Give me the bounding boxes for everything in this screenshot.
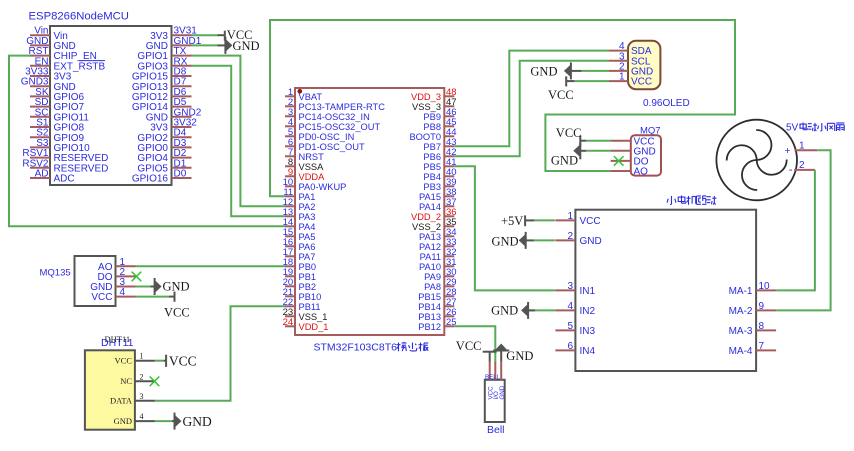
U1 right pin 3V3 / net label 3V31 [150,26,197,42]
U2 pin 13 PA3 [283,207,316,222]
svg-text:PB8: PB8 [423,122,441,132]
svg-text:PC13-TAMPER-RTC: PC13-TAMPER-RTC [299,102,386,112]
U2 pin 10 PA0-WKUP [283,177,347,192]
wire DHT11 DATA to U2 PB11 (pin22) [155,306,285,401]
svg-text:PA5: PA5 [299,232,316,242]
U5 pin 1 VCC [555,211,600,227]
svg-text:PB15: PB15 [418,292,441,302]
svg-text:GND: GND [530,64,557,78]
U1 left pin GPIO7 / net label SD [30,97,85,113]
svg-text:VCC: VCC [580,216,601,227]
U1 right pin GPIO16 / net label D0 [132,169,192,185]
svg-text:PB14: PB14 [418,302,441,312]
U2 pin 5 PD0-OSC_IN [285,127,354,142]
U2 pin 14 PA4 [283,217,316,232]
svg-text:PB4: PB4 [423,172,441,182]
svg-text:PA2: PA2 [299,202,316,212]
5V fan M1 circle body [716,120,797,201]
svg-text:GND: GND [183,414,212,429]
U1 right pin GPIO0 / net label D3 [137,138,191,154]
svg-text:PB7: PB7 [423,142,441,152]
GND power port at U5 GND [492,232,534,249]
svg-text:BOOT0: BOOT0 [409,132,441,142]
svg-text:4: 4 [567,301,573,312]
U2 pin 8 VSSA [285,157,324,172]
svg-text:AD: AD [35,169,49,180]
svg-text:VCC: VCC [556,126,582,140]
svg-text:VSS_2: VSS_2 [412,222,441,232]
U1 right pin GPIO1 / net label TX [137,46,191,62]
svg-text:10: 10 [759,281,771,292]
wire U2 PA1 (pin11) loop to MQ7 AO [270,20,735,196]
U1 right pin GPIO2 / net label D4 [137,128,191,144]
STM32F103C8T6 core board U2 body [295,88,444,335]
GND power port at U5 IN2 [491,302,535,319]
U2 pin 37 PA14 [419,197,457,212]
wire MQ135 GND pin to GND port [136,286,151,288]
svg-text:MQ135: MQ135 [40,268,71,279]
U2 pin 18 PB0 [283,257,316,272]
U5 pin 4 IN2 [555,301,595,317]
wire U2 PB5 (pin41) to U5 IN1 [454,166,555,290]
U1 left pin GPIO8 / net label S1 [30,118,85,134]
svg-text:2: 2 [567,231,573,242]
svg-text:AO: AO [634,167,649,178]
wire ESP GND1 to GND power port [192,44,218,46]
U2 pin 44 BOOT0 [409,127,456,142]
U2 pin 43 PB7 [423,137,456,152]
U2 pin 27 PB14 [418,297,456,312]
U2 pin 7 NRST [285,147,324,162]
svg-text:PB10: PB10 [299,292,322,302]
svg-text:PA1: PA1 [299,192,316,202]
U1 left pin GPIO10 / net label S3 [30,138,90,154]
svg-text:GND: GND [499,385,506,399]
U2 pin 11 PA1 [283,187,315,202]
svg-text:VDD_1: VDD_1 [299,322,329,332]
svg-text:VDD_3: VDD_3 [411,92,441,102]
U3 pin 1 VCC [609,72,652,88]
U3 pin 2 GND [609,61,653,77]
U3 pin 4 SDA [609,41,652,57]
U2 pin 15 PA5 [283,227,316,242]
fan pin 1 + [784,141,817,157]
svg-text:24: 24 [283,317,294,328]
U2 pin 35 VSS_2 [412,217,457,232]
svg-text:3: 3 [567,281,573,292]
U2 pin 21 PB10 [283,287,322,302]
U1 right pin 3V3 / net label 3V32 [150,118,197,134]
svg-text:8: 8 [759,321,765,332]
wire OLED GND pin to GND port [582,70,609,72]
GND power port at Bell GND [493,344,533,364]
svg-text:PB1: PB1 [299,272,317,282]
Bell pin VCC [487,362,494,400]
U1 left pin GPIO11 / net label SC [30,107,89,123]
wire MQ135 VCC pin to VCC port [136,296,170,298]
U5 pin 3 IN1 [555,281,595,297]
wire ESP 3V31 to VCC power port [192,34,218,36]
U6 pin 2 DO [98,267,136,283]
U5 pin 6 IN4 [555,341,595,357]
svg-text:PA11: PA11 [420,252,441,262]
svg-text:PA3: PA3 [299,212,316,222]
svg-text:IN3: IN3 [580,326,596,337]
U5 pin 9 MA-2 [729,301,777,317]
U2 pin 33 PA12 [419,237,457,252]
svg-text:GND: GND [506,349,533,363]
MQ7 gas sensor U4 body [631,135,661,175]
GND power port at MQ7 GND [551,142,586,167]
U2 pin 29 PA8 [424,277,456,292]
svg-text:PB11: PB11 [299,302,321,312]
U2 pin 42 PB6 [423,147,456,162]
svg-text:MA-4: MA-4 [729,346,753,357]
0.96OLED display U3 body [628,41,660,89]
wire U2 PB12 (pin25) to Bell I/O [454,326,495,362]
U1 left pin GND / net label GND [26,36,75,52]
U4 pin GND [611,146,656,157]
motor driver U5 body 小电机驱动 [575,210,756,371]
svg-text:ADC: ADC [54,174,75,185]
svg-text:2: 2 [799,160,805,171]
svg-text:PA0-WKUP: PA0-WKUP [299,182,347,192]
U2 pin 24 VDD_1 [283,317,329,332]
U2 pin 34 PA13 [419,227,457,242]
U4 pin DO [611,157,649,168]
U2 pin 9 VDDA [285,167,325,182]
U5 pin 5 IN3 [555,321,595,337]
U1 right pin GPIO14 / net label D5 [132,97,192,113]
U2 pin 47 VSS_3 [412,97,457,112]
U5 label 小电机驱动 [667,196,676,205]
MQ135 gas sensor U6 body [75,256,116,306]
fan blades swirl [727,130,787,190]
svg-text:PB9: PB9 [423,112,441,122]
U1 right pin GND / net label GND1 [146,36,202,52]
svg-text:PA12: PA12 [419,242,441,252]
U5 pin 2 GND [555,231,601,247]
svg-text:DHT11: DHT11 [105,334,131,344]
svg-text:VCC: VCC [91,292,112,303]
U2 pin 45 PB8 [423,117,456,132]
U2 pin 30 PA9 [424,267,456,282]
U2 pin 36 VDD_2 [411,207,457,222]
U1 left pin Vin / net label Vin [30,26,68,42]
svg-text:6: 6 [567,341,573,352]
svg-text:PD0-OSC_IN: PD0-OSC_IN [299,132,355,142]
svg-text:PA15: PA15 [419,192,441,202]
wire MQ7 GND pin to GND port [586,150,611,152]
svg-text:1: 1 [567,211,573,222]
wire ESP TX to U2 PA2 (pin12) [192,56,286,207]
svg-text:-: - [789,164,793,176]
VCC power port at ESP 3V31 [218,28,253,42]
svg-text:5V: 5V [786,123,799,134]
U1 right pin GPIO13 / net label D7 [132,77,192,93]
VCC power port at Bell VCC [456,339,497,362]
U2 pin 40 PB4 [423,167,456,182]
U2 pin 19 PB1 [283,267,316,282]
no-connect X on MQ135 DO [132,272,142,282]
U2 pin 16 PA6 [283,237,316,252]
svg-text:+: + [784,145,790,157]
wire U2 PB6 (pin42) to OLED SCL [454,61,609,157]
no-connect X on MQ7 DO [614,156,624,166]
svg-text:GND: GND [491,304,518,318]
U6 pin 3 GND [90,277,135,293]
svg-text:ESP8266NodeMCU: ESP8266NodeMCU [29,11,129,23]
svg-text:GND: GND [551,154,578,168]
U1 left pin RESERVED / net label RSV2 [22,158,108,174]
svg-text:VBAT: VBAT [299,92,323,102]
svg-text:PA10: PA10 [419,262,441,272]
U1 left pin 3V3 / net label 3V33 [25,67,72,83]
U2 pin 4 PC15-OSC32_OUT [285,117,380,132]
svg-text:GND: GND [114,416,132,426]
svg-text:VCC: VCC [169,354,197,369]
svg-text:VCC: VCC [631,77,652,88]
svg-text:2: 2 [140,372,144,381]
svg-text:PB13: PB13 [418,312,441,322]
svg-text:STM32F103C8T6: STM32F103C8T6 [314,342,398,354]
svg-text:PB0: PB0 [299,262,317,272]
U4 pin VCC [611,136,655,147]
svg-text:3: 3 [140,392,144,401]
U1 right pin GPIO5 / net label D1 [137,158,191,174]
svg-text:GND: GND [163,280,190,294]
U2 pin 17 PA7 [283,247,316,262]
U2 pin 46 PB9 [423,107,456,122]
svg-text:BELL: BELL [485,374,501,381]
svg-text:GND: GND [233,39,260,53]
svg-text:+5V: +5V [501,214,523,228]
svg-text:VSSA: VSSA [299,162,325,172]
svg-text:1: 1 [799,141,805,152]
wire MQ135 AO to U2 PB0 (pin18) [136,265,286,267]
svg-text:9: 9 [759,301,765,312]
svg-text:PA9: PA9 [424,272,441,282]
U2 pin 6 PD1-OSC_OUT [285,137,365,152]
svg-text:MQ7: MQ7 [640,126,661,137]
svg-text:PA13: PA13 [419,232,441,242]
U1 left pin GPIO6 / net label SK [30,87,85,103]
svg-text:D0: D0 [174,169,187,180]
svg-text:GND: GND [580,236,602,247]
U1 left pin EXT_RSTB / net label EN [30,56,106,72]
U1 right pin GPIO3 / net label RX [137,56,191,72]
wire fan pin1 to U5 MA-2 [776,150,831,310]
U7 label DHT11 [101,334,134,349]
wire GND port to U5 GND [534,239,555,241]
wire ESP RX to U2 PA3 (pin13) [192,66,286,217]
U2 pin 41 PB5 [423,157,456,172]
svg-text:PA7: PA7 [299,252,316,262]
svg-text:0.96OLED: 0.96OLED [643,98,690,109]
svg-text:PA8: PA8 [424,282,441,292]
svg-text:1: 1 [619,72,625,83]
svg-text:VCC: VCC [115,356,133,366]
U2 pin 20 PB2 [283,277,316,292]
wire U2 PB7 (pin43) to OLED SDA [454,51,609,147]
svg-text:GND: GND [492,234,519,248]
svg-text:NC: NC [120,376,132,386]
U1 left pin GND / net label GND3 [21,77,76,93]
U2 pin-1 red dot [298,89,303,94]
svg-text:4: 4 [140,412,144,421]
wire DHT11 GND pin to GND port [155,420,172,422]
+5V power port at U5 VCC [501,214,534,228]
U6 pin 4 VCC [91,287,135,303]
U7 pin 3 DATA [110,392,155,406]
svg-text:PC14-OSC32_IN: PC14-OSC32_IN [299,112,370,122]
svg-text:PA4: PA4 [299,222,316,232]
svg-text:NRST: NRST [299,152,325,162]
wire +5V port to U5 VCC [534,219,555,221]
U4 pin AO [611,167,649,178]
Bell pin I/O [493,362,500,400]
U2 pin 31 PA10 [419,257,457,272]
GND power port at DHT11 GND [172,413,212,430]
U2 pin 26 PB13 [418,307,456,322]
U1 right pin GPIO4 / net label D2 [137,148,191,164]
svg-text:VCC: VCC [548,88,574,102]
U2 pin 1 VBAT [285,87,322,102]
svg-text:VSS_1: VSS_1 [299,312,328,322]
U2 pin 38 PA15 [419,187,457,202]
svg-text:VSS_3: VSS_3 [412,102,441,112]
svg-text:MA-3: MA-3 [729,326,753,337]
U2 pin 2 PC13-TAMPER-RTC [285,97,385,112]
U1 left pin CHIP_EN / net label RST [29,46,97,62]
VCC power port at DHT11 VCC [164,354,197,369]
svg-text:7: 7 [759,341,765,352]
U5 pin 7 MA-4 [729,341,777,357]
svg-text:Bell: Bell [487,424,505,436]
wire MQ7 VCC pin to VCC port [586,140,611,142]
wire OLED VCC pin to VCC port [574,80,609,82]
svg-text:PB3: PB3 [423,182,441,192]
wire fan pin2 to U5 MA-1 [776,170,815,291]
svg-text:IN2: IN2 [580,306,596,317]
U2 pin 22 PB11 [283,297,321,312]
svg-text:5: 5 [567,321,573,332]
U1 right pin GND / net label GND2 [146,107,202,123]
svg-text:PA14: PA14 [419,202,441,212]
wire GND port to U5 IN2 [528,309,555,311]
svg-text:VDD_2: VDD_2 [411,212,441,222]
no-connect X on DHT11 NC [150,377,160,387]
svg-text:MA-2: MA-2 [729,306,753,317]
U1 right pin GPIO12 / net label D6 [132,87,192,103]
svg-text:VDDA: VDDA [299,172,326,182]
U3 pin 3 SCL [609,51,651,67]
U2 pin 28 PB15 [418,287,456,302]
GND power port at MQ135 GND [151,278,190,295]
U2 pin 25 PB12 [418,317,456,332]
svg-text:4: 4 [120,287,126,298]
wire DHT11 VCC pin to VCC port [155,360,164,362]
wire ESP RST to U2 PA4 (pin14) [9,56,285,227]
U7 pin 1 VCC [115,352,155,366]
svg-text:PD1-OSC_OUT: PD1-OSC_OUT [299,142,365,152]
U7 pin 4 GND [114,412,155,426]
U1 left pin ADC / net label AD [30,169,75,185]
U1 left pin RESERVED / net label RSV1 [22,148,108,164]
U2 pin 32 PA11 [420,247,457,262]
U6 pin 1 AO [98,257,135,273]
GND power port at ESP GND1 [218,37,260,54]
svg-text:GPIO16: GPIO16 [132,174,169,185]
U2 pin 39 PB3 [423,177,456,192]
svg-text:PA6: PA6 [299,242,316,252]
U2 pin 23 VSS_1 [283,307,328,322]
VCC power port at MQ7 VCC [556,126,586,146]
svg-text:PB5: PB5 [423,162,441,172]
U2 pin 12 PA2 [283,197,316,212]
svg-text:IN1: IN1 [580,286,596,297]
U1 right pin GPIO15 / net label D8 [132,67,192,83]
fan pin 2 - [789,160,815,176]
ESP8266NodeMCU module U1 body [50,26,172,185]
VCC power port at MQ135 VCC [164,292,190,320]
svg-text:PB6: PB6 [423,152,441,162]
GND power port at OLED GND [530,62,581,79]
svg-text:1: 1 [140,352,144,361]
U5 pin 8 MA-3 [729,321,777,337]
svg-text:DATA: DATA [110,396,133,406]
U2 pin 3 PC14-OSC32_IN [285,107,370,122]
Bell buzzer body [485,380,505,422]
svg-text:MA-1: MA-1 [729,286,753,297]
svg-text:VCC: VCC [164,306,190,320]
U5 pin 10 MA-1 [729,281,777,297]
svg-text:IN4: IN4 [580,346,596,357]
VCC power port at OLED VCC [548,76,574,102]
U1 left pin GPIO9 / net label S2 [30,128,85,144]
svg-text:PB2: PB2 [299,282,317,292]
svg-text:PC15-OSC32_OUT: PC15-OSC32_OUT [299,122,381,132]
svg-text:VCC: VCC [456,339,482,353]
DHT11 sensor U7 body [85,350,135,429]
U7 pin 2 NC [120,372,155,386]
Bell pin GND [499,362,506,400]
svg-text:PB12: PB12 [418,322,441,332]
U2 pin 48 VDD_3 [411,87,457,102]
